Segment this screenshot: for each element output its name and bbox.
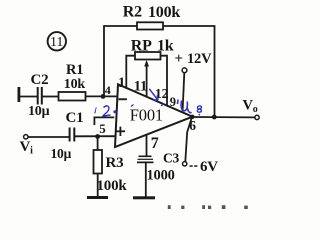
output terminal Vo (255, 115, 259, 119)
-6V supply terminal (183, 162, 187, 166)
label Vi (20, 139, 34, 157)
faint cropped text at bottom edge (168, 205, 248, 209)
+12V supply terminal (182, 68, 187, 111)
svg-text:1k: 1k (157, 37, 174, 54)
wire: R2 right leg down to output (163, 26, 215, 117)
junction node (R2/R1/pin4) (101, 94, 106, 99)
pin 1 label (118, 75, 125, 91)
svg-text:R2: R2 (123, 4, 142, 21)
ground bar (C3) (133, 196, 155, 199)
wire: R3 to ground bar (97, 174, 99, 197)
resistor R2 (137, 22, 163, 29)
value 100k (R2) (148, 4, 180, 21)
op-amp U1 triangle (115, 84, 193, 147)
wire: Vi to C1 (28, 136, 69, 138)
blue annotation: dots around 2 (94, 107, 116, 114)
value 1k (RP) (157, 37, 174, 54)
value 10k (R1) (64, 77, 86, 92)
label R3 (106, 155, 124, 171)
resistor R3 (94, 150, 103, 174)
pin 7 label (151, 135, 159, 152)
svg-text:C1: C1 (66, 110, 84, 126)
svg-text:5: 5 (99, 121, 106, 136)
input terminal (inverting input bar) (18, 87, 21, 102)
label RP (131, 37, 152, 54)
svg-text:Vi: Vi (20, 139, 34, 157)
value 10μ (C1) (51, 146, 72, 161)
resistor R1 (59, 92, 86, 101)
blue annotation: arrow on pin 12 (149, 89, 158, 101)
wire: RP right lead to pin 12 (161, 56, 168, 106)
wire: C1 to pin 5 (75, 135, 116, 137)
blue annotation: handwritten 2 (103, 106, 111, 116)
svg-text:+: + (175, 51, 183, 67)
label C1 (66, 110, 84, 126)
wire: node to R3 (97, 137, 99, 151)
RP wiper arrow to pin 11 (144, 60, 149, 97)
svg-text:C2: C2 (31, 72, 49, 88)
pin 6 label (189, 118, 196, 133)
junction node (op-amp output apex) (190, 115, 194, 119)
svg-text:R3: R3 (106, 155, 124, 171)
svg-text:10k: 10k (64, 77, 86, 92)
blue annotation: handwritten 8 (197, 106, 201, 116)
wire: C3 to ground bar (145, 163, 147, 197)
ground bar (R3) (87, 196, 108, 199)
wire: RP left lead to pin 1 (126, 56, 135, 88)
svg-text:4: 4 (105, 83, 111, 97)
svg-text:11: 11 (50, 35, 63, 50)
label R1 (66, 62, 83, 78)
pin 2 stub wire (94, 117, 114, 125)
pin 12 label (155, 87, 169, 102)
svg-text:F001: F001 (130, 106, 163, 125)
label R2 (123, 4, 142, 21)
svg-text:100k: 100k (148, 4, 180, 21)
svg-text:RP: RP (131, 37, 152, 54)
svg-text:1: 1 (118, 75, 125, 91)
wire: R2 left leg (104, 26, 137, 96)
svg-text:10μ: 10μ (51, 146, 72, 161)
label Vo (243, 97, 258, 115)
svg-text:6V: 6V (200, 159, 218, 175)
svg-text:Vo: Vo (243, 97, 258, 115)
label +12V (175, 51, 213, 67)
blue annotation: tick over F (131, 104, 164, 107)
svg-text:C3: C3 (163, 150, 180, 165)
pin 6 output wire (193, 116, 256, 118)
svg-text:100k: 100k (97, 178, 128, 194)
wire: -6V supply branch (185, 117, 192, 162)
minus sign (inverting input) (119, 98, 127, 100)
pin 9 label (170, 95, 176, 109)
figure number 11 (48, 32, 66, 50)
label C2 (31, 72, 49, 88)
capacitor C1 (70, 128, 75, 142)
pin 4 label (105, 83, 111, 97)
value 10μ (C2) (28, 104, 50, 119)
wire: R1 to inverting input, node at R2 tap (86, 95, 118, 97)
junction node (R2 right leg / output) (212, 115, 217, 120)
label C3 (163, 150, 180, 165)
value 100k (R3) (97, 178, 128, 194)
junction node (pin5/R3) (95, 134, 100, 139)
svg-text:10μ: 10μ (28, 104, 50, 119)
pin 7 wire (146, 135, 148, 156)
wire: C2 to R1 (43, 96, 59, 98)
potentiometer RP (135, 52, 161, 60)
blue annotation: flourish at pin 9 (178, 100, 192, 113)
pin 5 label (99, 121, 106, 136)
capacitor C2 (38, 87, 42, 105)
svg-text:7: 7 (151, 135, 159, 152)
svg-text:12V: 12V (187, 51, 212, 67)
capacitor C3 (137, 156, 154, 162)
pin 11 label (134, 79, 147, 95)
input terminal Vi (24, 135, 28, 139)
plus sign (noninverting input) (116, 127, 125, 136)
svg-text:R1: R1 (66, 62, 83, 78)
value 1000 (C3) (147, 168, 175, 184)
wire: terminal to C2 (20, 96, 37, 98)
label F001 (130, 106, 163, 125)
svg-text:1000: 1000 (147, 168, 175, 184)
label -6V (190, 159, 219, 175)
